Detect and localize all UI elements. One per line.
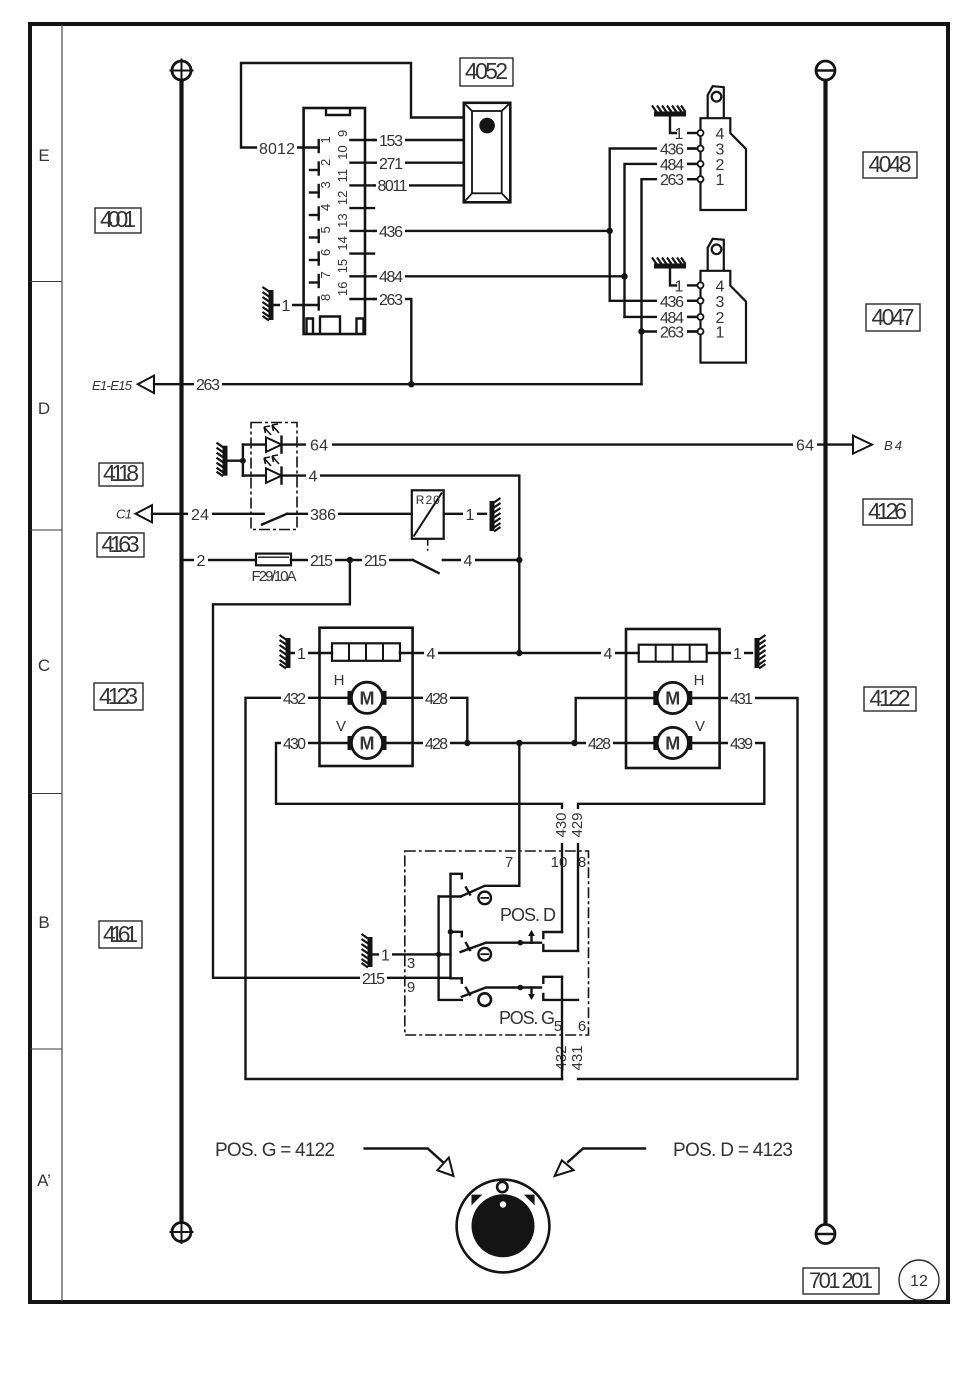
svg-text:6: 6 (578, 1018, 586, 1035)
4047 pin 3 wire 436 (657, 293, 725, 311)
node 428 centre join (516, 740, 522, 746)
4048 pin 1 wire 263 (657, 171, 725, 189)
4048 pin 2 wire 484 (657, 156, 725, 174)
svg-text:431: 431 (730, 691, 753, 708)
pointer line right (555, 1149, 645, 1177)
row letter E (38, 146, 49, 165)
wire 429 label (569, 809, 586, 843)
svg-text:POS. D: POS. D (500, 905, 556, 925)
svg-text:8: 8 (318, 294, 333, 301)
svg-text:5: 5 (318, 226, 333, 233)
svg-text:436: 436 (379, 224, 403, 241)
svg-text:V: V (336, 718, 346, 735)
svg-text:1: 1 (318, 136, 333, 143)
ground right mirror (707, 635, 766, 669)
connector 4001 pin 7 (310, 271, 333, 287)
svg-text:R20: R20 (416, 493, 440, 507)
wire 24 (152, 506, 264, 524)
motor V right (653, 727, 692, 758)
connector U4001 body (304, 108, 365, 334)
svg-text:V: V (695, 718, 705, 735)
row tick E/D (30, 281, 62, 283)
label box 4001 (95, 206, 141, 233)
heater element left (332, 643, 400, 661)
svg-text:M: M (360, 688, 375, 708)
svg-text:8011: 8011 (378, 178, 408, 195)
4048 pin 3 wire 436 (657, 141, 725, 159)
svg-text:215: 215 (362, 971, 385, 988)
LED D1 (243, 424, 282, 453)
connector 4001 pin 11 (335, 169, 374, 186)
svg-text:263: 263 (379, 292, 403, 309)
heater element right (639, 645, 707, 662)
battery - terminal bottom (816, 1225, 836, 1244)
sheet number 12 (899, 1260, 939, 1300)
svg-text:153: 153 (379, 133, 403, 150)
svg-text:484: 484 (379, 269, 403, 286)
wire 432 label (553, 1041, 570, 1075)
svg-text:POS. D = 4123: POS. D = 4123 (673, 1140, 793, 1161)
node 428 left join (464, 740, 470, 746)
svg-text:C: C (38, 656, 50, 675)
node 263 junction (408, 381, 414, 387)
wire 1 from R20 to ground (444, 498, 501, 532)
svg-text:64: 64 (310, 438, 328, 455)
node rail dot (448, 929, 454, 935)
motor V left (348, 727, 387, 758)
svg-text:64: 64 (796, 438, 814, 455)
svg-text:428: 428 (588, 736, 611, 753)
wire 436 vertical feeder (610, 149, 696, 301)
row letter B (38, 913, 49, 932)
svg-text:263: 263 (660, 325, 684, 342)
svg-text:6: 6 (318, 249, 333, 256)
svg-text:436: 436 (660, 294, 684, 311)
svg-text:H: H (694, 672, 705, 689)
title block 701 201 (803, 1268, 879, 1294)
left mirror unit 4123 body (320, 628, 413, 766)
label box 4126 (863, 498, 912, 525)
wire 431 (578, 690, 798, 1079)
svg-text:4: 4 (464, 553, 473, 570)
svg-text:431: 431 (569, 1045, 586, 1070)
4047 pin 1 wire 263 (657, 324, 725, 342)
connector 4001 pin 5 (310, 226, 333, 242)
switch pin 10 label (551, 854, 568, 871)
label V right (695, 718, 705, 735)
switch pin 6 label (578, 1018, 586, 1035)
wire 271 (374, 155, 464, 173)
mirror control unit 4118 enclosure (251, 423, 297, 530)
svg-text:7: 7 (505, 854, 513, 871)
wire 2 from + bus (182, 552, 257, 570)
svg-text:3: 3 (716, 294, 725, 311)
svg-text:14: 14 (335, 236, 350, 250)
contact jaws row2 (543, 932, 578, 951)
connector 4001 pin 14 (335, 236, 374, 253)
node 436 junction (607, 228, 613, 234)
indicator circle row1 (478, 892, 491, 905)
4047 pin 4 wire 1 (671, 277, 725, 295)
switch feed rail 215 (451, 874, 462, 983)
row tick D/C (30, 529, 62, 531)
svg-text:430: 430 (553, 812, 570, 837)
svg-text:4052: 4052 (465, 58, 508, 84)
svg-text:2: 2 (318, 159, 333, 166)
connector 4001 pin 9 (335, 130, 374, 140)
node 484 junction (621, 273, 627, 279)
contact jaws row3 (543, 977, 578, 1000)
switch S2 timer contact (413, 552, 520, 573)
switch pin 3 label (407, 955, 415, 972)
battery - terminal top (816, 61, 836, 80)
svg-text:439: 439 (730, 736, 753, 753)
label box 4163 (97, 531, 144, 557)
svg-text:429: 429 (569, 812, 586, 837)
svg-text:4048: 4048 (869, 151, 912, 177)
ground at switch (362, 934, 451, 968)
row tick C/B (30, 793, 62, 795)
svg-text:1: 1 (297, 646, 306, 663)
wire 428 right H (576, 698, 654, 743)
svg-text:215: 215 (310, 553, 333, 570)
switch pin 8 label (578, 854, 586, 871)
svg-text:13: 13 (335, 213, 350, 227)
label box 4118 (99, 460, 143, 486)
svg-text:263: 263 (196, 377, 220, 394)
connector 4001 pin 8 (318, 294, 333, 310)
svg-text:POS. G = 4122: POS. G = 4122 (215, 1140, 335, 1161)
svg-text:1: 1 (381, 947, 390, 964)
battery + terminal bottom (170, 1220, 194, 1244)
supply bus + (left) (179, 80, 183, 1222)
svg-text:4123: 4123 (99, 683, 138, 709)
svg-text:4: 4 (716, 126, 725, 143)
svg-text:10: 10 (335, 145, 350, 159)
ground bus - (right) (823, 80, 827, 1224)
svg-text:4: 4 (427, 646, 436, 663)
pointer line left (365, 1149, 454, 1177)
wire 8011 (374, 177, 464, 195)
svg-text:M: M (665, 689, 680, 709)
svg-text:4163: 4163 (102, 531, 140, 557)
label V left (336, 718, 346, 735)
4048 pin 4 wire 1 (671, 125, 725, 143)
svg-text:1: 1 (675, 126, 684, 143)
label box 4122 (864, 685, 916, 711)
connector 4001 pin 6 (310, 249, 333, 265)
ground left mirror (280, 635, 333, 669)
node ground rail dot (436, 952, 442, 958)
connector 4001 pin 4 (310, 204, 333, 220)
svg-text:4: 4 (318, 204, 333, 211)
wire 430 label (553, 809, 570, 843)
svg-text:4118: 4118 (103, 460, 139, 486)
svg-text:430: 430 (283, 736, 306, 753)
label box 4123 (94, 683, 143, 710)
svg-text:1: 1 (716, 172, 725, 189)
svg-text:4126: 4126 (868, 498, 907, 524)
svg-text:9: 9 (335, 130, 350, 137)
mirror switch 4161 enclosure (405, 851, 589, 1035)
resistor R20 (412, 490, 444, 539)
svg-text:11: 11 (335, 169, 350, 183)
motor H left (348, 682, 387, 713)
label box 4047 (866, 304, 920, 331)
caption POS. G = 4122 (215, 1140, 335, 1161)
wire 263 horizontal (154, 376, 642, 394)
wire 484 horizontal (374, 268, 625, 286)
motor H right (653, 682, 692, 713)
row tick B/A (30, 1048, 62, 1050)
wire 64 (282, 437, 854, 455)
svg-text:263: 263 (660, 172, 684, 189)
interconnect arrow C1 (116, 505, 152, 522)
svg-text:E: E (38, 146, 49, 165)
svg-text:428: 428 (425, 691, 448, 708)
svg-text:2: 2 (197, 553, 206, 570)
indicator circle row2 (478, 948, 491, 961)
label H left (334, 672, 345, 689)
label box 4161 (99, 921, 142, 948)
mirror actuator 4047 body (701, 239, 747, 363)
connector 4001 pin 1 (318, 136, 333, 152)
contact blade row2 (461, 930, 541, 952)
wire 439 (578, 735, 764, 951)
svg-text:215: 215 (364, 553, 387, 570)
interconnect arrow E1-E15 (92, 376, 154, 394)
svg-text:3: 3 (318, 181, 333, 188)
svg-text:F29/10A: F29/10A (252, 568, 297, 585)
connector 4001 pin 15 (335, 259, 374, 276)
svg-text:C1: C1 (116, 507, 132, 522)
node 215 junction (347, 557, 353, 563)
svg-text:12: 12 (335, 191, 350, 205)
ground for 4047 (652, 258, 686, 286)
POS. G caption (499, 1008, 555, 1028)
svg-text:B: B (38, 913, 49, 932)
connector 4001 pin 13 (335, 213, 374, 230)
svg-text:432: 432 (283, 691, 306, 708)
mechanical link R20 to switch (427, 539, 429, 552)
wire 263 from pin16 (374, 291, 411, 384)
svg-text:A’: A’ (37, 1171, 51, 1190)
wire 215 feeder to switch unit (213, 560, 451, 988)
svg-text:1: 1 (733, 646, 742, 663)
4047 pin 2 wire 484 (657, 309, 725, 327)
svg-text:15: 15 (335, 259, 350, 273)
switch S1 in 4118 (262, 506, 412, 525)
contact blade row1 (461, 886, 520, 897)
row letter D (38, 399, 50, 418)
label box 4048 (863, 151, 917, 178)
connector 4001 pin 16 (335, 282, 374, 299)
node diode common (240, 445, 246, 476)
svg-text:1: 1 (716, 325, 725, 342)
wire 4 heater link (400, 645, 639, 663)
node 263 branch (638, 328, 644, 334)
fuse F29 10A (252, 554, 297, 585)
wire 436 horizontal (374, 223, 610, 241)
wire 4 from D2 (282, 468, 520, 653)
wire 215 after fuse (291, 552, 413, 570)
svg-text:701 201: 701 201 (809, 1268, 873, 1293)
row letter A' (37, 1171, 51, 1190)
connector 4001 pin 2 (310, 159, 333, 175)
indicator circle row3 (478, 993, 491, 1006)
svg-text:24: 24 (191, 507, 209, 524)
ground for 4048 (652, 106, 686, 134)
svg-text:7: 7 (318, 271, 333, 278)
mirror actuator 4048 body (701, 86, 747, 210)
label box 4052 (460, 58, 513, 86)
row letter C (38, 656, 50, 675)
svg-text:4047: 4047 (872, 304, 915, 330)
svg-text:M: M (665, 734, 680, 754)
svg-text:D: D (38, 399, 50, 418)
wire 484 vertical feeder (625, 164, 697, 317)
svg-text:428: 428 (425, 736, 448, 753)
POS. D caption (500, 905, 556, 925)
switch pivot rail (439, 897, 462, 1000)
svg-text:4001: 4001 (100, 206, 136, 232)
contact blade row3 (462, 985, 541, 1000)
wire 8012 pin1 loop to 4052 (241, 63, 464, 148)
switch pin 9 label (407, 979, 415, 996)
ground at connector pin 8 (263, 287, 319, 321)
control knob (457, 1180, 550, 1273)
connector 4001 pin 10 (335, 145, 374, 162)
connector 4001 pin 12 (335, 191, 374, 208)
label H right (694, 672, 705, 689)
svg-text:9: 9 (407, 979, 415, 996)
LED D2 (243, 455, 282, 484)
svg-text:271: 271 (379, 156, 403, 173)
wire 432 (246, 690, 563, 1079)
caption POS. D = 4123 (673, 1140, 793, 1161)
right mirror unit 4122 body (626, 629, 720, 768)
svg-text:8: 8 (578, 854, 586, 871)
svg-text:H: H (334, 672, 345, 689)
svg-text:10: 10 (551, 854, 568, 871)
svg-text:4: 4 (604, 646, 613, 663)
svg-text:4122: 4122 (870, 685, 911, 711)
svg-text:16: 16 (335, 282, 350, 296)
wire 428 left H (386, 690, 467, 743)
svg-text:4: 4 (309, 469, 318, 486)
node 4 at heater row (516, 650, 522, 656)
wire 428 common (386, 735, 654, 753)
connector 4001 pin 3 (310, 181, 333, 197)
switch pin 7 lead (505, 743, 519, 886)
svg-text:1: 1 (466, 507, 475, 524)
node 4 junction (516, 557, 522, 563)
battery + terminal top (170, 59, 194, 83)
switch pin 5 label (554, 1018, 562, 1035)
svg-text:4161: 4161 (103, 921, 138, 947)
wire 263 vertical feeder (642, 179, 697, 384)
interconnect arrow B4 (853, 436, 902, 454)
svg-text:386: 386 (310, 507, 336, 524)
svg-text:E1-E15: E1-E15 (92, 378, 133, 393)
wire 431 label (569, 1041, 586, 1075)
wire 430 (276, 735, 562, 932)
wire label 8012 (257, 139, 297, 158)
svg-text:3: 3 (407, 955, 415, 972)
node 428 right join (571, 740, 577, 746)
svg-text:POS. G: POS. G (499, 1008, 555, 1028)
svg-text:12: 12 (910, 1273, 928, 1290)
svg-text:1: 1 (282, 298, 291, 315)
svg-text:8012: 8012 (259, 141, 295, 158)
switch pin 5 lead (561, 977, 563, 1079)
wire 153 (374, 132, 464, 150)
svg-text:M: M (360, 734, 375, 754)
ground in 4118 (217, 443, 243, 477)
clock module 4052 (464, 103, 511, 203)
